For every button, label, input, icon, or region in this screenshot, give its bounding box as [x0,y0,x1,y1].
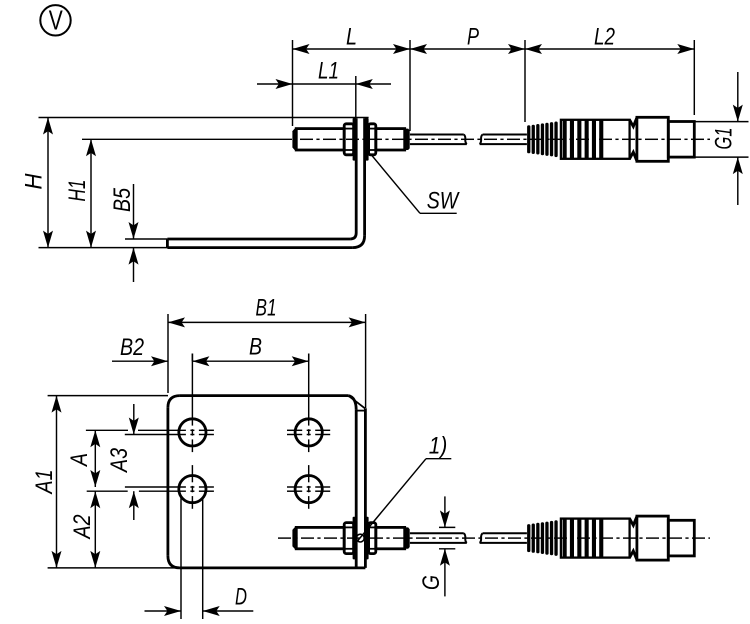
svg-text:L1: L1 [318,58,339,85]
svg-text:SW: SW [427,188,461,215]
svg-text:A: A [66,453,93,468]
svg-text:G: G [418,575,445,590]
svg-text:V: V [49,5,64,36]
svg-text:L2: L2 [594,24,615,51]
svg-text:B2: B2 [120,334,144,361]
svg-text:B1: B1 [256,295,277,322]
svg-text:D: D [235,584,247,611]
svg-text:A1: A1 [31,470,58,496]
svg-text:P: P [467,24,479,51]
svg-text:A3: A3 [106,448,133,474]
svg-text:G1: G1 [711,128,738,150]
svg-text:B5: B5 [109,188,136,212]
svg-text:A2: A2 [69,514,96,540]
svg-text:B: B [249,334,262,361]
svg-text:H1: H1 [64,180,91,202]
svg-text:1): 1) [429,433,448,460]
svg-text:L: L [346,24,357,51]
svg-text:H: H [21,173,48,189]
